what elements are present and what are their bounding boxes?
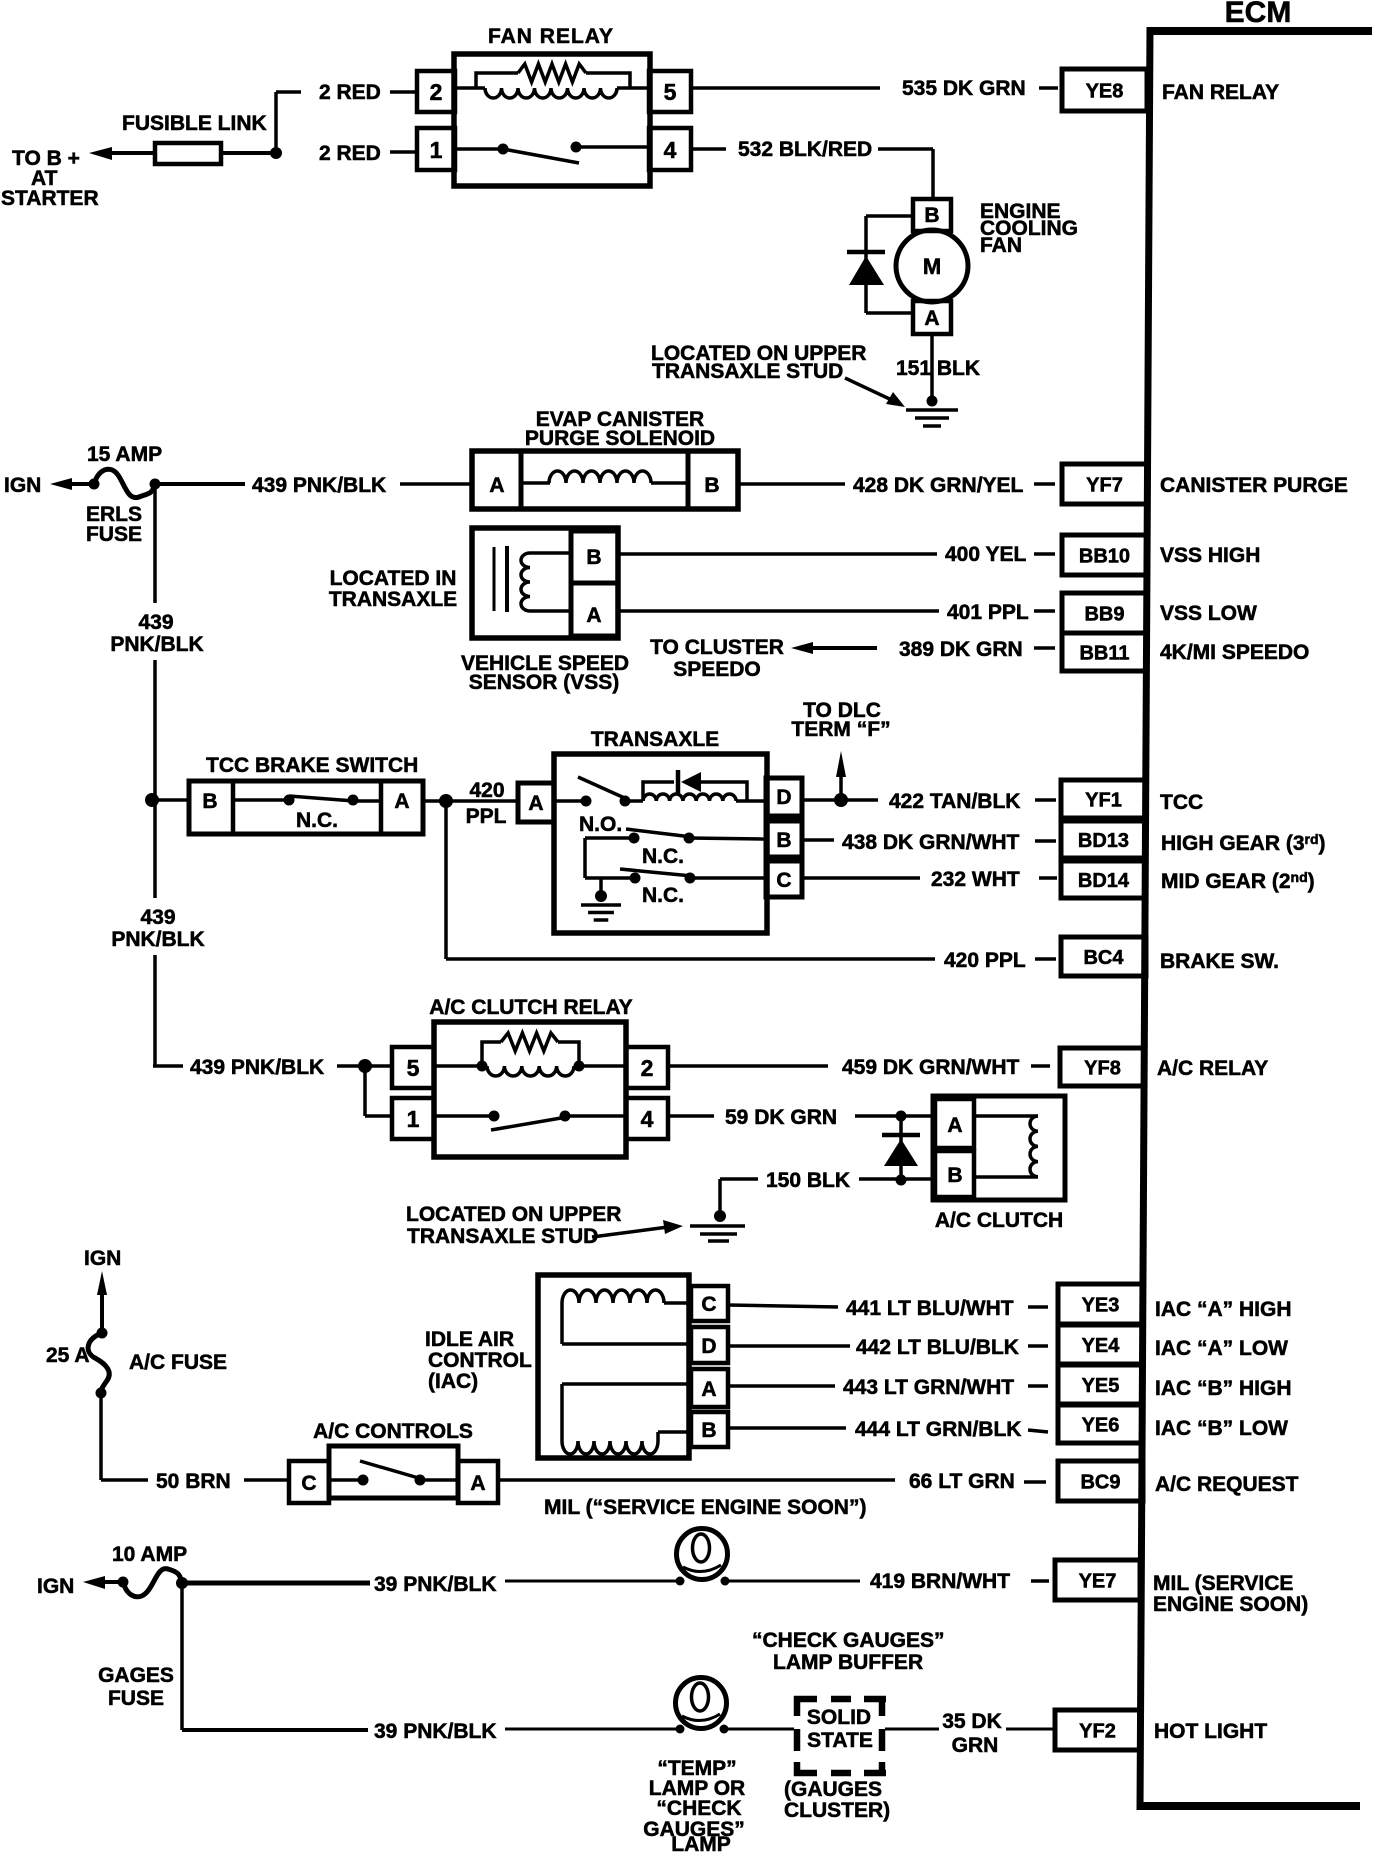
ECM connector terminal BB11 <box>1062 633 1147 671</box>
ERLS fuse <box>89 479 100 490</box>
svg-text:MIL (SERVICE: MIL (SERVICE <box>1153 1572 1293 1595</box>
svg-text:IGN: IGN <box>37 1575 74 1598</box>
svg-text:A: A <box>394 790 409 813</box>
svg-text:PNK/BLK: PNK/BLK <box>111 928 204 951</box>
svg-text:SENSOR (VSS): SENSOR (VSS) <box>469 671 620 694</box>
svg-text:MIL (“SERVICE ENGINE SOON”): MIL (“SERVICE ENGINE SOON”) <box>544 1496 866 1519</box>
svg-text:151 BLK: 151 BLK <box>896 357 980 380</box>
svg-text:A/C REQUEST: A/C REQUEST <box>1155 1473 1299 1496</box>
svg-text:B: B <box>701 1419 716 1442</box>
svg-text:LOCATED ON UPPER: LOCATED ON UPPER <box>406 1203 621 1226</box>
svg-text:400 YEL: 400 YEL <box>945 543 1027 566</box>
svg-text:150 BLK: 150 BLK <box>766 1169 850 1192</box>
svg-text:2: 2 <box>641 1055 654 1081</box>
svg-text:444 LT GRN/BLK: 444 LT GRN/BLK <box>855 1418 1021 1441</box>
solid state module (dashed box) <box>794 1696 817 1703</box>
transaxle ground <box>599 878 603 901</box>
svg-text:15 AMP: 15 AMP <box>87 443 162 466</box>
wire 232 WHT <box>802 876 920 880</box>
svg-text:420: 420 <box>469 779 504 802</box>
svg-text:IDLE AIR: IDLE AIR <box>425 1328 514 1351</box>
svg-text:CLUSTER): CLUSTER) <box>784 1799 890 1822</box>
svg-text:459 DK GRN/WHT: 459 DK GRN/WHT <box>842 1056 1020 1079</box>
svg-text:2 RED: 2 RED <box>319 81 381 104</box>
iac pin C <box>691 1286 728 1321</box>
transaxle pin D <box>766 778 802 816</box>
evap pin A <box>519 451 524 509</box>
svg-text:A: A <box>701 1378 716 1401</box>
arrow to fan ground <box>845 378 896 402</box>
junction node 2 RED <box>270 147 282 159</box>
wire fusible link to junction <box>221 151 276 155</box>
wire 442 LT BLU/BLK <box>728 1344 850 1348</box>
fan relay pin 1 <box>417 128 455 170</box>
fan relay coil <box>485 88 617 98</box>
wire to ac relay junction <box>337 1064 365 1068</box>
wire 535 DK GRN <box>691 86 880 90</box>
svg-text:532 BLK/RED: 532 BLK/RED <box>738 138 872 161</box>
junction 439 trunk at TCC <box>145 793 159 807</box>
svg-text:LAMP: LAMP <box>671 1833 731 1852</box>
svg-text:B: B <box>202 790 217 813</box>
svg-text:GRN: GRN <box>952 1734 999 1757</box>
cooling fan pin A <box>913 301 951 334</box>
ECM connector terminal BD14 <box>1061 861 1146 898</box>
evap purge solenoid body <box>472 451 738 509</box>
wire 59 DK GRN <box>668 1114 714 1118</box>
wire 428 DK GRN/YEL <box>738 482 845 486</box>
transaxle pin A <box>518 783 554 822</box>
cooling fan motor M <box>896 230 968 302</box>
ac clutch pin B <box>935 1151 974 1197</box>
svg-text:CANISTER PURGE: CANISTER PURGE <box>1160 474 1348 497</box>
svg-text:YE4: YE4 <box>1082 1335 1121 1357</box>
fan relay coil wire pin2-pin5 <box>455 86 485 90</box>
ac controls body <box>329 1446 458 1498</box>
svg-text:50 BRN: 50 BRN <box>156 1470 231 1493</box>
wire 439 PNK/BLK horizontal <box>155 482 245 486</box>
wire 35 DK GRN <box>885 1728 939 1731</box>
ECM connector terminal BB10 <box>1062 535 1147 575</box>
wire 39 PNK/BLK (MIL) <box>182 1581 370 1586</box>
junction ac clutch diode top <box>896 1111 907 1122</box>
svg-text:B: B <box>947 1164 962 1187</box>
svg-text:N.C.: N.C. <box>642 884 684 907</box>
svg-text:N.C.: N.C. <box>642 845 684 868</box>
wire 151 BLK <box>930 334 934 406</box>
svg-text:B: B <box>924 204 939 227</box>
svg-text:B: B <box>586 546 601 569</box>
svg-text:IGN: IGN <box>4 474 41 497</box>
svg-text:FAN: FAN <box>980 234 1022 257</box>
svg-text:N.O.: N.O. <box>579 813 622 836</box>
ac clutch relay body <box>434 1022 626 1157</box>
ac clutch diode <box>899 1116 903 1180</box>
svg-text:TRANSAXLE: TRANSAXLE <box>329 588 457 611</box>
svg-text:A: A <box>586 604 601 627</box>
svg-text:4: 4 <box>641 1106 654 1132</box>
ECM bottom boundary line <box>1137 1802 1360 1810</box>
svg-text:“CHECK GAUGES”: “CHECK GAUGES” <box>752 1629 945 1652</box>
svg-text:BRAKE SW.: BRAKE SW. <box>1160 950 1279 973</box>
tcc brake switch contacts <box>233 798 289 802</box>
svg-text:FUSIBLE LINK: FUSIBLE LINK <box>122 112 267 135</box>
vss coil <box>521 553 530 611</box>
fan relay body <box>454 54 650 186</box>
svg-text:FAN RELAY: FAN RELAY <box>1162 81 1279 104</box>
svg-text:422 TAN/BLK: 422 TAN/BLK <box>889 790 1020 813</box>
svg-text:(GAUGES: (GAUGES <box>784 1778 882 1801</box>
vss pin A <box>571 583 618 636</box>
arrow to cluster speedo <box>791 642 813 654</box>
svg-text:66 LT GRN: 66 LT GRN <box>909 1470 1015 1493</box>
wire to DLC term F <box>839 775 843 800</box>
svg-text:ENGINE SOON): ENGINE SOON) <box>1153 1593 1308 1616</box>
fan relay resistor loop <box>476 73 518 88</box>
svg-text:59 DK GRN: 59 DK GRN <box>725 1106 837 1129</box>
junction ground ac clutch <box>714 1210 726 1222</box>
ECM vertical boundary line <box>1137 27 1154 1810</box>
iac pin D <box>691 1327 728 1363</box>
ground (ac clutch) <box>690 1224 745 1228</box>
ac relay pin 5 <box>392 1047 434 1088</box>
svg-text:STARTER: STARTER <box>1 187 99 210</box>
tcc solenoid diode loop <box>643 782 674 801</box>
ground (fan motor) <box>906 408 958 412</box>
svg-text:C: C <box>701 1293 716 1316</box>
ac relay switch <box>434 1114 494 1118</box>
svg-text:N.C.: N.C. <box>296 809 338 832</box>
svg-text:A/C CLUTCH: A/C CLUTCH <box>935 1209 1063 1232</box>
svg-text:39 PNK/BLK: 39 PNK/BLK <box>374 1573 497 1596</box>
svg-text:4: 4 <box>664 137 677 163</box>
wire dash to fan relay pin 2 <box>390 90 415 94</box>
vehicle speed sensor body <box>472 528 618 638</box>
iac body <box>538 1275 689 1458</box>
svg-text:HOT LIGHT: HOT LIGHT <box>1154 1720 1267 1743</box>
vss pickup bars <box>493 547 496 611</box>
svg-text:C: C <box>301 1472 316 1495</box>
ECM connector terminal YF7 <box>1062 464 1147 504</box>
svg-text:PURGE SOLENOID: PURGE SOLENOID <box>525 427 715 450</box>
evap solenoid coil <box>521 481 550 485</box>
fan diode <box>847 250 885 255</box>
svg-text:B: B <box>776 829 791 852</box>
svg-text:HIGH GEAR (3rd): HIGH GEAR (3rd) <box>1161 831 1326 855</box>
svg-text:SOLID: SOLID <box>807 1706 871 1729</box>
svg-text:TRANSAXLE: TRANSAXLE <box>591 728 719 751</box>
wire 419 BRN/WHT <box>729 1580 860 1583</box>
ac relay pin 4 <box>626 1098 668 1139</box>
ac controls pin C <box>289 1461 329 1503</box>
ECM connector terminal YE7 <box>1055 1560 1140 1600</box>
wire 150 BLK <box>859 1177 937 1181</box>
svg-text:439: 439 <box>138 611 173 634</box>
ac relay pin 2 <box>626 1047 668 1088</box>
svg-text:441 LT BLU/WHT: 441 LT BLU/WHT <box>846 1297 1014 1320</box>
svg-text:B: B <box>704 474 719 497</box>
wire 459 DK GRN/WHT <box>668 1064 828 1068</box>
svg-text:BC9: BC9 <box>1080 1472 1120 1494</box>
junction at ground <box>927 396 938 407</box>
wire down to gauges lamp <box>180 1583 184 1730</box>
iac pin B <box>691 1412 728 1447</box>
cooling fan pin B <box>913 199 951 231</box>
svg-text:BB9: BB9 <box>1084 604 1124 626</box>
svg-text:25 A: 25 A <box>46 1344 90 1367</box>
fan relay switch blade <box>503 149 579 163</box>
svg-text:TRANSAXLE STUD: TRANSAXLE STUD <box>407 1225 598 1248</box>
svg-text:YF7: YF7 <box>1086 475 1123 497</box>
svg-text:A/C FUSE: A/C FUSE <box>129 1351 227 1374</box>
svg-text:ECM: ECM <box>1225 0 1292 29</box>
svg-text:420 PPL: 420 PPL <box>944 949 1026 972</box>
svg-text:BC4: BC4 <box>1083 947 1124 969</box>
svg-text:419 BRN/WHT: 419 BRN/WHT <box>870 1570 1010 1593</box>
transaxle N.C. switch (mid gear) <box>583 838 587 878</box>
svg-text:439 PNK/BLK: 439 PNK/BLK <box>252 474 386 497</box>
ECM connector terminal YE4 <box>1058 1325 1143 1364</box>
fusible link <box>155 143 221 164</box>
tcc solenoid coil <box>643 794 736 801</box>
ECM connector terminal BB9 <box>1062 593 1147 633</box>
svg-text:STATE: STATE <box>807 1729 873 1752</box>
svg-text:TCC: TCC <box>1160 791 1203 814</box>
svg-text:535 DK GRN: 535 DK GRN <box>902 77 1026 100</box>
svg-text:SPEEDO: SPEEDO <box>673 658 761 681</box>
svg-text:VSS LOW: VSS LOW <box>1160 602 1257 625</box>
diode (transaxle) <box>676 770 681 793</box>
wire 441 LT BLU/WHT <box>728 1305 838 1307</box>
tcc brake switch pin B <box>231 781 236 834</box>
iac coil B (A-B) <box>562 1382 691 1386</box>
svg-text:389 DK GRN: 389 DK GRN <box>899 638 1023 661</box>
svg-text:D: D <box>701 1335 716 1358</box>
svg-text:PNK/BLK: PNK/BLK <box>110 633 203 656</box>
wire to TCC brake switch <box>152 798 190 802</box>
ac controls switch <box>329 1478 363 1482</box>
svg-text:438 DK GRN/WHT: 438 DK GRN/WHT <box>842 831 1020 854</box>
svg-text:TO CLUSTER: TO CLUSTER <box>650 636 784 659</box>
arrow IGN gages <box>83 1576 105 1589</box>
GAGES fuse <box>118 1577 129 1588</box>
transaxle body <box>554 754 767 933</box>
svg-text:YE5: YE5 <box>1082 1375 1120 1397</box>
transaxle N.O. switch <box>554 799 586 803</box>
svg-text:1: 1 <box>407 1106 420 1132</box>
svg-text:PPL: PPL <box>466 805 507 828</box>
ECM connector terminal YE8 <box>1062 69 1147 111</box>
ECM top boundary line <box>1147 27 1372 35</box>
svg-text:YE6: YE6 <box>1082 1415 1120 1437</box>
svg-text:TERM “F”: TERM “F” <box>791 718 890 741</box>
arrow to B+ <box>89 147 112 160</box>
svg-text:BD13: BD13 <box>1078 830 1129 852</box>
ac clutch coil <box>974 1114 1038 1118</box>
svg-text:39 PNK/BLK: 39 PNK/BLK <box>374 1720 497 1743</box>
ac clutch pin A <box>935 1099 974 1148</box>
wire 420 PPL node <box>423 799 446 803</box>
svg-text:A: A <box>947 1114 962 1137</box>
svg-text:BB11: BB11 <box>1079 643 1129 665</box>
svg-text:“CHECK: “CHECK <box>656 1797 741 1820</box>
branch to pin 1 <box>363 1066 367 1116</box>
svg-text:2: 2 <box>430 79 443 105</box>
transaxle pin C <box>766 861 802 897</box>
svg-text:IAC “B” LOW: IAC “B” LOW <box>1155 1417 1288 1440</box>
ac controls pin A <box>458 1461 498 1503</box>
svg-text:1: 1 <box>430 137 443 163</box>
svg-text:BB10: BB10 <box>1079 546 1130 568</box>
wire 401 PPL <box>618 609 939 613</box>
svg-text:A/C CONTROLS: A/C CONTROLS <box>313 1420 473 1443</box>
ac clutch compressor body <box>933 1096 1065 1200</box>
svg-text:232 WHT: 232 WHT <box>931 868 1020 891</box>
svg-text:YE7: YE7 <box>1079 1571 1117 1593</box>
ECM connector terminal YF8 <box>1060 1048 1145 1086</box>
svg-text:439: 439 <box>140 906 175 929</box>
wire 532 BLK/RED <box>691 147 726 151</box>
arrow IGN up <box>97 1271 107 1295</box>
ECM connector terminal YE5 <box>1058 1365 1143 1404</box>
wire 444 LT GRN/BLK <box>728 1426 846 1430</box>
svg-text:TCC BRAKE SWITCH: TCC BRAKE SWITCH <box>206 754 418 777</box>
wire 422 TAN/BLK <box>802 798 841 802</box>
svg-text:LAMP BUFFER: LAMP BUFFER <box>773 1651 923 1674</box>
gauges lamp <box>676 1678 727 1729</box>
ECM connector terminal BC4 <box>1061 937 1146 976</box>
svg-text:5: 5 <box>664 79 677 105</box>
svg-text:GAGES: GAGES <box>98 1664 174 1687</box>
svg-text:YF1: YF1 <box>1085 790 1122 812</box>
fan relay pin 5 <box>649 71 691 112</box>
wire 50 BRN <box>99 1393 103 1480</box>
svg-text:A/C RELAY: A/C RELAY <box>1157 1057 1268 1080</box>
transaxle pin B <box>766 821 802 857</box>
fan relay pin 2 <box>417 71 455 112</box>
svg-text:442 LT BLU/BLK: 442 LT BLU/BLK <box>856 1336 1019 1359</box>
svg-text:C: C <box>776 869 791 892</box>
svg-text:10 AMP: 10 AMP <box>112 1543 187 1566</box>
svg-text:4K/MI SPEEDO: 4K/MI SPEEDO <box>1160 641 1309 664</box>
evap pin B <box>686 451 691 509</box>
svg-text:A/C CLUTCH RELAY: A/C CLUTCH RELAY <box>429 996 632 1019</box>
ECM connector terminal YF1 <box>1061 780 1146 818</box>
svg-text:VSS HIGH: VSS HIGH <box>1160 544 1260 567</box>
svg-text:5: 5 <box>407 1055 420 1081</box>
svg-text:443 LT GRN/WHT: 443 LT GRN/WHT <box>843 1376 1014 1399</box>
svg-text:A: A <box>470 1472 485 1495</box>
svg-text:2 RED: 2 RED <box>319 142 381 165</box>
arrow IGN ERLS <box>50 478 72 490</box>
wire 66 LT GRN <box>498 1478 895 1482</box>
svg-text:IAC “A” HIGH: IAC “A” HIGH <box>1155 1298 1292 1321</box>
svg-text:TRANSAXLE STUD: TRANSAXLE STUD <box>652 360 843 383</box>
svg-text:YE8: YE8 <box>1086 81 1124 103</box>
arrow to ac ground <box>592 1227 668 1237</box>
svg-text:428 DK GRN/YEL: 428 DK GRN/YEL <box>853 474 1024 497</box>
ECM connector terminal YE3 <box>1058 1284 1143 1324</box>
svg-text:FAN RELAY: FAN RELAY <box>488 25 614 48</box>
fan relay switch contact left <box>455 147 503 151</box>
ac relay coil line <box>434 1064 482 1068</box>
svg-text:IAC “B” HIGH: IAC “B” HIGH <box>1155 1377 1292 1400</box>
svg-text:CONTROL: CONTROL <box>428 1349 532 1372</box>
svg-text:A: A <box>489 474 504 497</box>
ECM connector terminal YF2 <box>1055 1710 1140 1750</box>
ac relay resistor <box>501 1033 558 1051</box>
svg-text:401 PPL: 401 PPL <box>947 601 1029 624</box>
ECM connector terminal BC9 <box>1058 1461 1143 1501</box>
iac coil A (C-D) <box>562 1290 664 1303</box>
svg-text:439 PNK/BLK: 439 PNK/BLK <box>190 1056 324 1079</box>
fan relay pin 4 <box>649 128 691 170</box>
wire lamp to solid state <box>728 1728 794 1731</box>
svg-text:35 DK: 35 DK <box>942 1710 1002 1733</box>
tcc brake switch pin A <box>379 781 384 834</box>
ECM connector terminal YE6 <box>1058 1405 1143 1443</box>
svg-text:YE3: YE3 <box>1082 1295 1120 1317</box>
svg-text:YF2: YF2 <box>1079 1721 1116 1743</box>
svg-text:(IAC): (IAC) <box>428 1370 478 1393</box>
wire 438 DK GRN/WHT <box>802 838 834 842</box>
svg-text:M: M <box>923 254 941 279</box>
svg-text:IAC “A” LOW: IAC “A” LOW <box>1155 1337 1288 1360</box>
svg-text:A: A <box>924 307 939 330</box>
svg-text:BD14: BD14 <box>1078 870 1130 892</box>
A/C fuse <box>97 1328 108 1339</box>
transaxle N.C. switch (high gear) <box>585 836 634 840</box>
wire junction up to pin 2 branch <box>274 92 278 153</box>
fan relay resistor <box>518 64 586 82</box>
wire 439 PNK/BLK lower trunk <box>153 800 157 898</box>
wire 439 PNK/BLK vertical trunk <box>153 484 157 603</box>
wire 420 PPL down to brake sw terminal <box>444 801 448 959</box>
ac relay resistor loop <box>482 1042 501 1066</box>
svg-text:A: A <box>528 792 543 815</box>
iac pin A <box>691 1369 728 1407</box>
vss pin B <box>571 531 618 583</box>
svg-text:FUSE: FUSE <box>86 523 142 546</box>
wire dash to fan relay pin 1 <box>390 150 415 154</box>
ECM connector terminal BD13 <box>1061 821 1146 858</box>
ac relay pin 1 <box>392 1098 434 1139</box>
wire 443 LT GRN/WHT <box>728 1384 835 1388</box>
fan diode branch wires <box>866 214 913 218</box>
svg-text:D: D <box>776 786 791 809</box>
MIL lamp <box>677 1529 728 1580</box>
svg-text:LOCATED IN: LOCATED IN <box>330 567 457 590</box>
wire 400 YEL <box>618 552 937 556</box>
tcc brake switch body <box>189 781 423 834</box>
svg-text:FUSE: FUSE <box>108 1687 164 1710</box>
svg-text:IGN: IGN <box>84 1247 121 1270</box>
fan relay switch contact right <box>571 142 582 153</box>
svg-text:YF8: YF8 <box>1084 1058 1121 1080</box>
